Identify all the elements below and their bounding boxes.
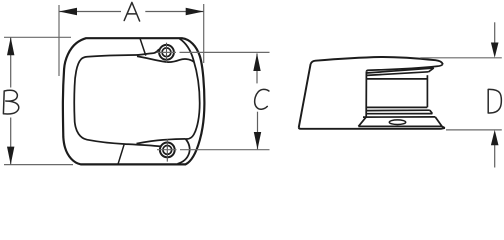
dim A left arrowhead [59, 8, 77, 15]
ring fold edge [429, 68, 434, 72]
dim A line right segment [145, 11, 203, 13]
front view inner rim upper curve [180, 39, 200, 139]
top screw vertical centerline [166, 43, 168, 63]
dim A left extension line [58, 5, 60, 76]
dim C bottom arrowhead [254, 132, 261, 149]
top screw inner circle [162, 48, 171, 57]
base pad oval hole [389, 120, 405, 125]
label B [3, 90, 18, 114]
dim B bottom arrowhead [7, 147, 14, 165]
stack left edge [358, 72, 366, 127]
cap bottom edge [366, 64, 442, 72]
dim C line lower segment [257, 112, 259, 150]
label C [255, 89, 269, 109]
body right edge [426, 75, 428, 107]
dim D bottom extension line [446, 129, 502, 131]
top screw outer circle [159, 45, 174, 60]
front view top clamp lip [137, 56, 194, 62]
dim C line upper segment [256, 53, 258, 83]
label A [124, 2, 139, 21]
dim B top extension line [4, 36, 71, 38]
flange top line [363, 116, 435, 118]
side view left slanted edge [299, 64, 311, 127]
dim D top arrowhead [491, 43, 499, 58]
front view top seam line [140, 38, 146, 55]
side view base bottom edge [299, 127, 445, 129]
front view bottom clamp lip [137, 139, 186, 144]
bottom screw outer circle [160, 143, 175, 158]
bottom screw inner circle [163, 146, 172, 155]
washer line 2 [366, 113, 432, 115]
dim B bottom extension line [4, 164, 73, 166]
flange bottom line [358, 126, 445, 128]
dim D upper line [494, 22, 496, 43]
dim D top extension line [420, 57, 502, 59]
front view inner insert (barrel) left/top/bottom edge [74, 49, 160, 146]
body top line [366, 78, 427, 80]
label D [488, 89, 501, 113]
dim B line lower segment [10, 118, 12, 165]
dim D lower line [494, 145, 496, 168]
dim D bottom arrowhead [491, 130, 499, 145]
dim A right extension line [203, 4, 205, 63]
ring line 2 [366, 72, 428, 76]
front view outer housing outline [63, 38, 205, 164]
front view inner rim lower curve [178, 139, 190, 164]
dim B line upper segment [10, 37, 12, 87]
flange right slant [435, 117, 442, 126]
front view bottom seam line [118, 144, 124, 164]
dim C top arrowhead [253, 53, 260, 71]
top screw horizontal centerline / dim C top extension [157, 51, 270, 53]
dim A right arrowhead [186, 8, 204, 15]
side view top edge [311, 57, 443, 64]
body bottom line [367, 106, 428, 108]
bottom screw horizontal centerline / dim C bottom extension [157, 149, 270, 151]
dim A line left segment [59, 11, 121, 13]
washer fold edge [430, 110, 433, 113]
bottom screw vertical centerline [166, 139, 168, 161]
dim B top arrowhead [7, 37, 14, 55]
ring line 1 [366, 68, 433, 73]
washer line 1 [367, 109, 430, 111]
